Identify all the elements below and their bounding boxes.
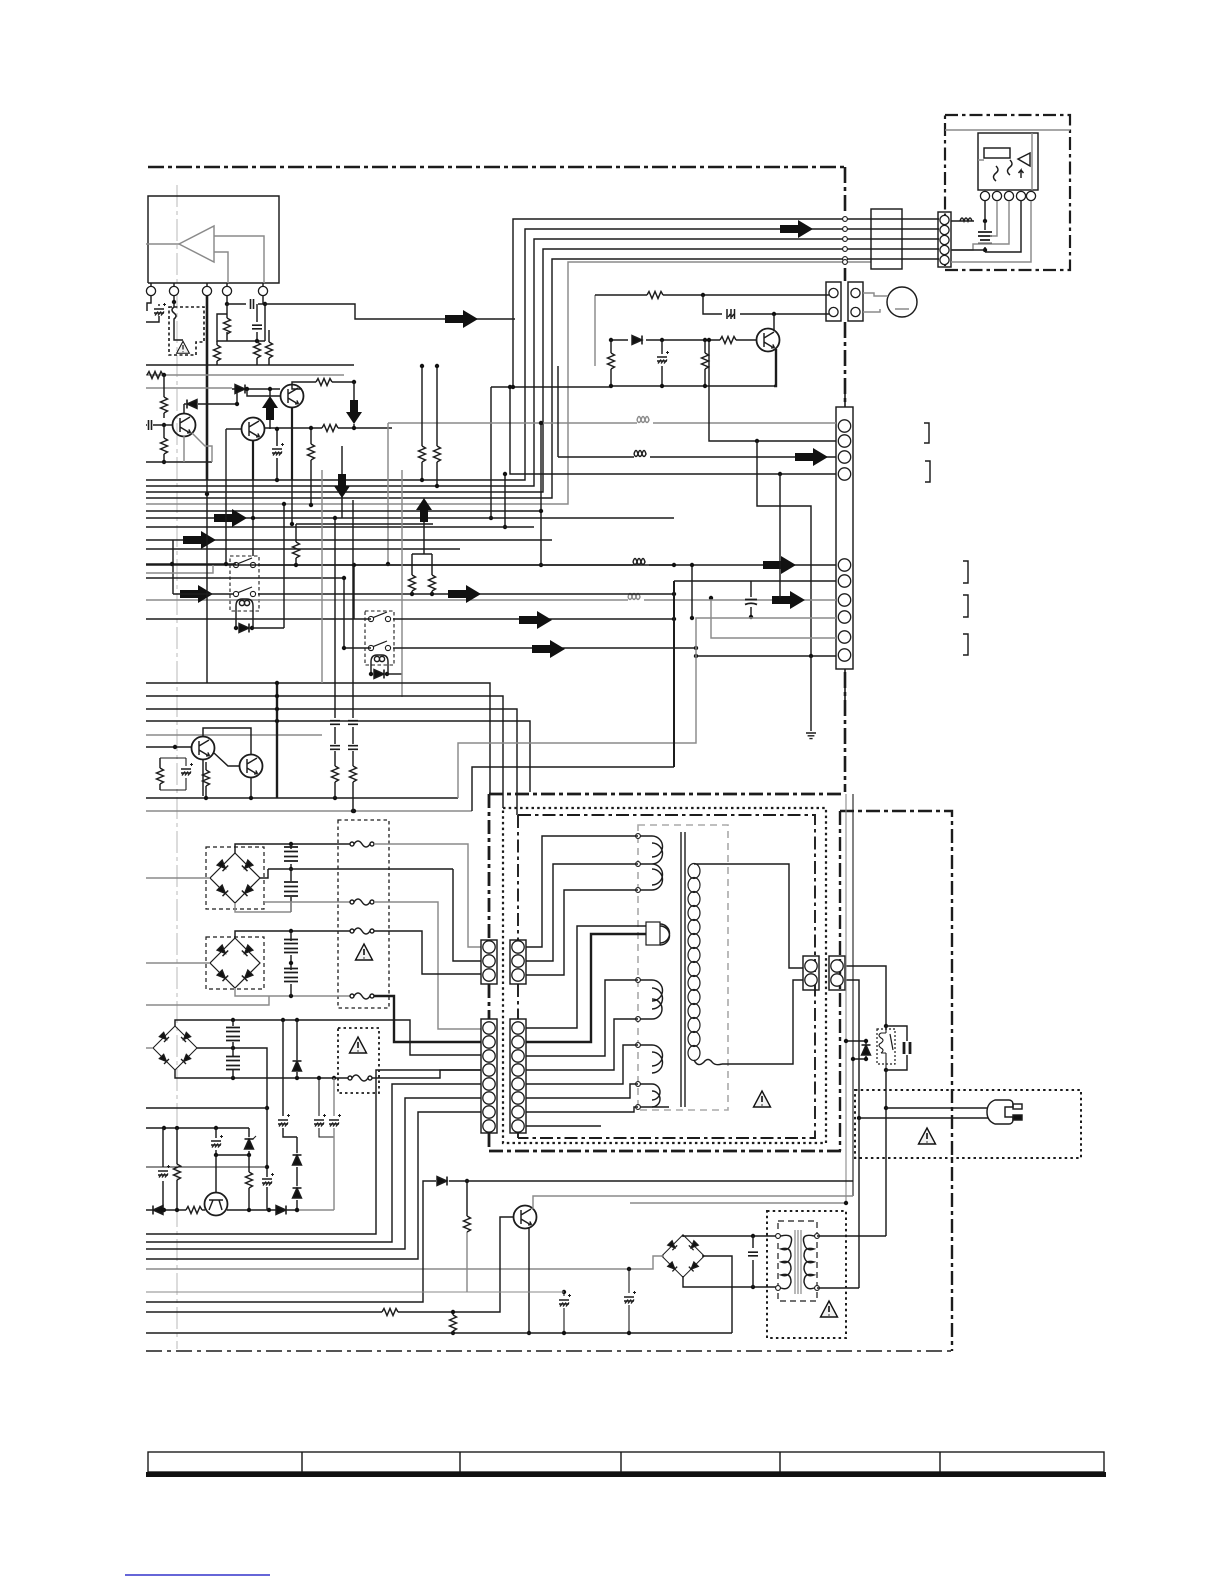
bridge1 left wire [146,877,210,879]
resistor R pair b [429,575,436,591]
junction [709,596,713,600]
pin [483,1050,495,1062]
wire fuse3 out [374,931,481,974]
resistor R [647,292,663,299]
vertical feed to connector [844,388,846,407]
wire with arrow [146,517,674,519]
tap node [636,834,641,839]
diode D input [146,1209,186,1211]
junction [751,1234,755,1238]
resistor R 2 [350,766,357,782]
table divider 3 [620,1452,622,1472]
amp output wires [214,236,264,283]
sensor element squiggle 1 [994,166,999,181]
junction [465,1179,469,1183]
bridge4 left wire [146,1256,664,1269]
pin [512,1050,524,1062]
wire fuse1 out [374,844,481,947]
diode D [239,624,249,633]
tap node [636,1082,641,1087]
junction [290,522,294,526]
pin [483,1078,495,1090]
pin [838,559,850,571]
tap wire 4 [526,926,646,1028]
relay RL coil [879,1026,886,1070]
pin [831,974,843,986]
tap wire 1 [526,836,638,947]
warning triangle [821,1301,838,1317]
Q1 collector vertical [225,429,227,480]
junction [527,1331,531,1335]
signal arrow right [780,220,813,238]
junction [672,592,676,596]
tap wire 11 [526,1125,601,1127]
junction [778,472,782,476]
junction [289,994,293,998]
AC transformer dotted box [767,1211,846,1338]
junction [749,615,753,619]
junction [173,745,177,749]
junction [508,385,512,389]
capacitor C [290,869,292,912]
heavy vertical [276,683,278,798]
junction [690,563,694,567]
sensor inner gray outline [978,133,1032,190]
tap node [636,978,641,983]
ground wire [810,656,812,731]
wire cross [216,1154,249,1156]
tap node [636,1043,641,1048]
junction [609,338,613,342]
wire to fuse2 [264,902,291,912]
capacitor C [232,1020,234,1048]
wire pin5 gray [951,201,1031,262]
signal arrow down [334,474,350,498]
tap node [776,1286,781,1291]
capacitor C [886,1026,907,1070]
bridge rectifier D 3 [153,1026,197,1070]
warning triangle lower [350,1037,367,1053]
pin [829,288,838,297]
capacitor C [232,1048,234,1078]
power block dotted box [503,808,826,1143]
wire pin5 [262,296,264,304]
signal arrow right [214,509,247,527]
signal arrow right [180,585,213,603]
exit wire 1 [146,1070,481,1234]
junction [251,516,255,520]
junction [175,1126,179,1130]
junction [809,654,813,658]
tap wire 7 [526,1019,638,1070]
plug prong 2 [1013,1115,1022,1120]
fuse group dashed box [338,820,389,1008]
pin 4 [222,286,231,295]
L wire [172,540,174,594]
junction [489,516,493,520]
bus wire [146,364,354,366]
down arrow feed [341,446,343,518]
wire vertical [291,480,293,524]
junction [864,1039,868,1043]
wire [709,340,836,441]
junction [265,1165,269,1169]
junction [703,384,707,388]
capacitor C [146,424,164,426]
junction [539,421,543,425]
wire bundle 6 [146,262,871,504]
transistor Q [514,1206,537,1229]
diode D out [276,1206,286,1215]
junction [275,719,279,723]
junction [275,478,279,482]
junction [275,707,279,711]
diode D string 1 [296,1137,298,1186]
transformer gray dashed box [638,825,728,1110]
pin [805,960,817,972]
capacitor C stack [984,221,986,252]
junction [772,312,776,316]
resistor R [159,758,161,790]
gray wire to thick bus [146,996,269,1005]
junction [884,1024,888,1028]
bus wire lower to pin [146,797,458,799]
diode D [632,336,642,345]
junction [627,1331,631,1335]
junction [294,563,298,567]
transformer T2 winding left [778,1235,792,1288]
warning triangle [919,1128,936,1144]
junction [451,1331,455,1335]
bus wire 3 [146,709,517,815]
switched wire 2 [258,593,674,595]
junction [214,1126,218,1130]
junction [609,384,613,388]
tap wire 5 thick [526,934,646,1042]
top wire [595,294,829,296]
table divider 4 [779,1452,781,1472]
relay dashed box 2 [365,611,394,665]
wire pin3 thick vertical [206,296,209,480]
pin [483,1036,495,1048]
Q base wire [146,1217,514,1312]
wire into amp [146,243,179,245]
bridge rectifier D 2 [210,938,260,988]
fuse F4 [350,993,374,999]
fuse F1 [350,841,374,847]
capacitor C [290,931,292,963]
AC feed vertical 1 [852,794,854,1196]
junction [386,562,390,566]
capacitor C 2b [352,751,354,766]
bracket ] [963,595,968,617]
wire vertical [310,470,312,505]
node on boundary 3 [843,237,848,242]
tap node [636,862,641,867]
junction [539,509,543,513]
feedback loop wires [217,304,265,341]
wire with arrow [146,539,552,541]
pin [512,1120,524,1132]
resistor R [216,341,218,365]
power cord dotted box [855,1090,1081,1158]
wire pin1 to coil [951,201,985,221]
junction [234,626,238,630]
pin [483,969,495,981]
junction [162,373,166,377]
capacitor C [750,581,752,617]
resistor R [704,340,706,386]
long gray vertical [401,470,403,697]
junction [250,626,254,630]
bridge1 right wire [260,869,268,878]
tap node [815,1234,820,1239]
resistor R horizontal [147,372,163,379]
wire pin4 [951,201,1021,252]
bridge rectifier dashed box 1 [206,847,264,909]
wire [146,1166,267,1168]
warning triangle [754,1091,771,1107]
pin 2 [169,286,178,295]
junction [351,809,355,813]
top right remote box dash-dot [945,115,1070,270]
resistor R [176,1128,178,1210]
zener cap C below Q2 [276,429,278,480]
junction [435,484,439,488]
node on boundary 5 [843,257,848,262]
transformer core [681,832,685,1107]
wire AC2 down [453,869,481,961]
bracket ] [963,561,968,583]
signal arrow right [519,611,552,629]
resistor R [205,762,207,796]
capacitor C [334,751,336,766]
resistor pair top tie [412,522,432,554]
wire conn to relay [845,966,886,1026]
pin [838,420,850,432]
resistor R hang 1 [295,524,297,565]
wire [146,526,534,528]
junction [884,1068,888,1072]
resistor R mid b [436,366,438,486]
wire riser gray [387,423,389,564]
capacitor C [256,304,258,341]
junction [352,809,356,813]
capacitor C polarized [283,1020,297,1137]
capacitor C (polarized) [154,303,166,316]
warning triangle [356,944,373,960]
junction [162,460,166,464]
Q2 emitter thick [252,441,254,480]
transformer T2 winding right [803,1235,817,1288]
capacitor C polarized [162,1128,164,1210]
wire pin3 gray [951,201,1009,250]
wire with coil and arrow [146,564,836,566]
resistor R [256,341,258,365]
pin [483,1106,495,1118]
transistor Q2 [242,418,265,441]
base wire [609,339,757,341]
primary winding group 3 [638,980,652,1019]
ground bus [491,386,774,518]
wire [711,598,836,638]
capacitor C [290,963,292,996]
Q3 emitter thick [291,408,293,480]
resistor R pair [409,575,416,591]
gray diode D on bus [235,385,245,394]
junction [162,1208,166,1212]
ptc cap symbol [727,309,735,319]
pin [940,235,949,244]
fuse F2 [350,899,374,905]
pin stubs [151,283,263,286]
tap bracket [646,922,660,945]
tap wire 10 [526,1107,638,1112]
relay dashed box 1 [230,556,259,611]
pin [483,1092,495,1104]
ferrite filter block [871,209,902,269]
signal arrow right [448,585,481,603]
pin [483,941,495,953]
table frame [148,1452,1104,1472]
junction [430,592,434,596]
pin [851,307,860,316]
pin [940,225,949,234]
tap node [636,888,641,893]
pin [940,255,949,264]
junction [309,503,313,507]
bottom bus [146,1332,732,1334]
junction [289,961,293,965]
base wire [146,746,191,748]
module pin 1 [980,191,989,200]
plug prong 1 [1013,1104,1022,1109]
bridge rectifier D [210,853,260,903]
junction [317,1076,321,1080]
pin [838,575,850,587]
junction [214,1153,218,1157]
resistor R horizontal [265,427,392,429]
tap wire 8 [526,1045,638,1084]
T2 secondary bottom wire [817,1118,859,1288]
bridge3 mid wire [197,1048,267,1177]
resistor R [452,1312,454,1333]
junction [420,478,424,482]
pin [512,969,524,981]
junction [175,1208,179,1212]
inductor L [960,218,972,221]
capacitor C polarized [563,1292,565,1333]
gray top wire [945,129,1070,131]
signal arrow right [183,531,216,549]
junction [694,646,698,650]
bridge2 bottom wire [235,988,350,996]
bridge4 bottom wire [683,1276,778,1287]
tap wire 6 [526,980,638,1056]
junction [352,563,356,567]
capacitor C polarized [319,1078,334,1137]
wire pin2 [990,201,997,236]
junction [511,385,515,389]
wire riser [472,767,674,811]
resistor R [248,1155,250,1210]
Q emitter thick [774,349,776,386]
transistor Q [240,755,263,778]
pin [831,960,843,972]
junction [672,617,676,621]
pin [483,955,495,967]
relay RL2 switch 1 [368,612,390,622]
pin 5 [258,286,267,295]
branch vertical [757,441,811,656]
junction [851,1057,855,1061]
footer blue underline [125,1574,270,1576]
capacitor C polarized 2 [628,1269,630,1333]
pin [838,631,850,643]
wire bundle 5 [146,259,939,498]
resistor R [332,766,339,782]
junction [539,563,543,567]
pin [851,288,860,297]
zener cap C [661,340,663,386]
junction [275,681,279,685]
sensor triangle [1018,153,1030,166]
module pin 4 [1016,191,1025,200]
signal arrow right [795,448,828,466]
junction [451,1310,455,1314]
junction [247,1153,251,1157]
pin [483,1120,495,1132]
tap wire 3 [526,890,638,975]
thermal fuse inside dashed box [172,302,183,340]
bottom boundary dash-dot line [146,1350,952,1352]
wire [696,655,836,657]
wire 2 to relay [146,565,213,573]
junction [435,364,439,368]
power plug [987,1100,1013,1124]
tap node [636,1105,641,1110]
junction [844,1039,848,1043]
primary winding group 4 [638,1045,669,1107]
wire pin1 [147,296,151,311]
table divider 2 [459,1452,461,1472]
pin [483,1022,495,1034]
wire fuse5 out [372,1070,481,1078]
signal arrow up [416,498,432,522]
capacitor C polarized [297,1078,334,1210]
wire to relay 1 [146,563,236,565]
tap node [636,1017,641,1022]
transistor Q [192,737,215,760]
pin [838,451,850,463]
transistor Q1 [173,414,196,437]
capacitor C [334,518,336,744]
switched wire 1 [258,564,674,566]
capacitor C [227,304,265,341]
junction [342,576,346,580]
capacitor C polarized [266,1187,268,1210]
wire pin4 [226,296,228,304]
table divider 5 [939,1452,941,1472]
signal arrow right [532,640,565,658]
diode D [374,670,384,679]
junction [660,338,664,342]
junction [562,1331,566,1335]
main board boundary dash-dot right vertical [844,167,847,792]
primary winding group 2 [660,924,670,945]
transistor Q3 [281,385,304,408]
connector CN pins column [938,212,951,267]
